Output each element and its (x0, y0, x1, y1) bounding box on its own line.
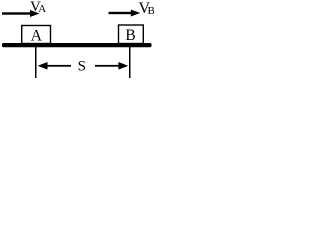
block B (119, 25, 144, 44)
svg-text:B: B (125, 27, 135, 44)
dimension arrow right head (118, 62, 128, 70)
right extension tick (129, 47, 131, 78)
svg-text:S: S (78, 59, 86, 75)
dimension arrow left head (38, 62, 48, 70)
dimension arrow right shaft (95, 65, 121, 67)
dimension arrow left shaft (45, 65, 71, 67)
velocity arrow VA shaft (2, 12, 32, 14)
block A (22, 26, 51, 44)
velocity arrow VB shaft (109, 12, 132, 14)
ground line (2, 43, 152, 47)
svg-text:A: A (31, 27, 43, 44)
svg-text:B: B (148, 5, 155, 17)
velocity arrow VA head (30, 10, 40, 17)
velocity arrow VB head (131, 10, 141, 17)
left extension tick (35, 47, 37, 78)
background (0, 0, 154, 85)
svg-text:A: A (38, 3, 46, 15)
